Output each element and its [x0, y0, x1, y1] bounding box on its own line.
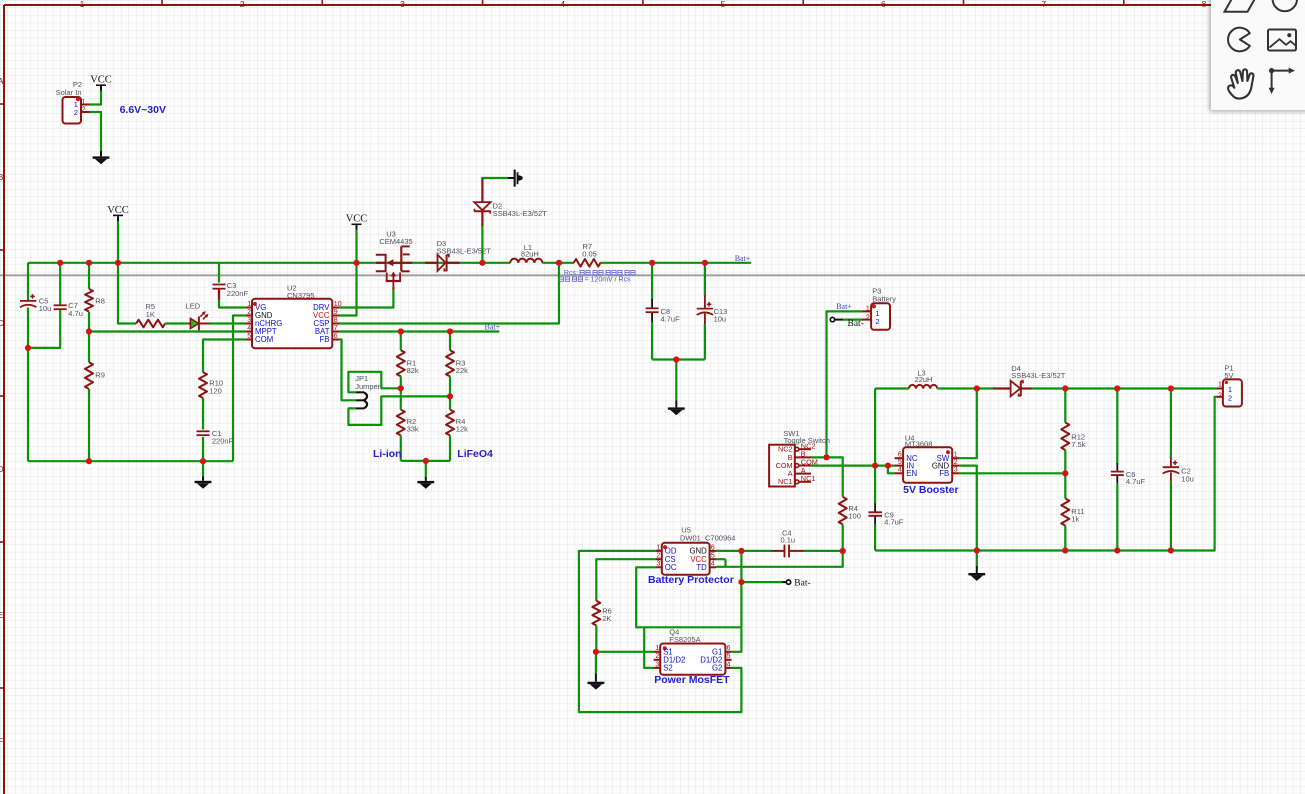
svg-text:G2: G2: [712, 664, 722, 673]
svg-text:1: 1: [656, 544, 660, 551]
svg-text:5: 5: [721, 0, 726, 9]
svg-text:1: 1: [82, 99, 86, 106]
diode D2 SSB43L-E3/52T: [474, 178, 547, 226]
svg-text:F: F: [0, 736, 3, 746]
capacitor C3 220nF: [218, 263, 220, 283]
svg-text:5: 5: [711, 553, 715, 560]
svg-text:S2: S2: [663, 664, 673, 673]
svg-text:CN3795: CN3795: [287, 291, 315, 300]
icon parallelogram: [1225, 0, 1258, 12]
jumper JP1: [355, 374, 381, 409]
IC U4 MT3608 (5V booster): [895, 433, 959, 482]
svg-text:Battery Protector: Battery Protector: [648, 574, 734, 586]
svg-text:Bat+: Bat+: [735, 254, 751, 263]
svg-text:8: 8: [1202, 0, 1207, 9]
resistor R10 120: [199, 372, 223, 398]
icon hand (pan): [1228, 69, 1253, 98]
ground (charger section): [202, 461, 204, 477]
svg-text:1: 1: [954, 451, 958, 458]
svg-text:1k: 1k: [1071, 515, 1079, 524]
svg-text:VCC: VCC: [107, 205, 129, 216]
inductor L1 82uH: [510, 243, 542, 263]
svg-text:6: 6: [727, 645, 731, 652]
svg-text:9: 9: [334, 309, 338, 316]
svg-text:22uH: 22uH: [915, 375, 933, 384]
svg-text:R8: R8: [95, 296, 105, 305]
svg-text:2: 2: [1218, 393, 1222, 400]
svg-text:4.7uF: 4.7uF: [661, 315, 681, 324]
svg-text:2: 2: [247, 309, 251, 316]
wire divider bottom: [401, 460, 450, 462]
svg-text:2K: 2K: [602, 614, 611, 623]
svg-text:0.05: 0.05: [582, 250, 597, 259]
svg-text:82k: 82k: [407, 366, 419, 375]
wire D2 to power flag: [481, 177, 508, 179]
wire S2 up: [644, 627, 653, 668]
svg-text:3: 3: [656, 561, 660, 568]
power flag VCC (top): [90, 75, 112, 91]
svg-text:LED: LED: [186, 302, 201, 311]
wire MPPT pin: [89, 330, 245, 332]
resistor R11 1k: [1061, 499, 1084, 526]
horizontal gray divider line: [0, 274, 1305, 276]
svg-text:COM: COM: [255, 335, 273, 344]
wire JP1 pin3 to R3/R4 node: [348, 396, 450, 425]
resistor R3 22k: [449, 332, 451, 351]
svg-text:B: B: [0, 172, 4, 182]
svg-text:2: 2: [82, 107, 86, 114]
icon arc (pacman): [1228, 28, 1250, 52]
resistor R4 12k: [446, 410, 468, 436]
connector P3 Battery: [861, 287, 896, 330]
svg-text:1: 1: [1218, 382, 1222, 389]
svg-text:100: 100: [848, 512, 861, 521]
svg-text:Rcs:: Rcs:: [564, 270, 578, 277]
svg-text:6: 6: [881, 0, 886, 9]
icon circle: [1273, 0, 1297, 11]
wire SW pin up to rail: [959, 389, 977, 459]
svg-text:4: 4: [711, 561, 715, 568]
svg-text:TD: TD: [696, 563, 707, 572]
svg-text:2: 2: [656, 553, 660, 560]
wire VCC pin from bus: [339, 230, 357, 316]
svg-text:4.7uF: 4.7uF: [1126, 477, 1146, 486]
svg-text:1: 1: [655, 645, 659, 652]
svg-text:1K: 1K: [146, 310, 155, 319]
wire OD loop to Q4 G2: [579, 551, 742, 712]
wire SW1 COM to booster node: [811, 465, 895, 467]
wire R8/R9 vertical: [88, 263, 90, 289]
wire booster bottom bus: [875, 397, 1216, 551]
wire VCC bus (main top horizontal): [28, 262, 510, 264]
wire COM pin to R10: [203, 340, 245, 373]
svg-text:FB: FB: [320, 335, 330, 344]
svg-text:22k: 22k: [456, 366, 468, 375]
ground (output caps): [668, 401, 685, 416]
svg-text:4.7u: 4.7u: [68, 309, 83, 318]
wire C7 branch: [59, 263, 61, 305]
svg-text:220nF: 220nF: [227, 289, 249, 298]
capacitor C7: [54, 301, 83, 318]
svg-text:33k: 33k: [407, 425, 419, 434]
inductor L3 22uH: [875, 387, 909, 389]
svg-text:5: 5: [727, 653, 731, 660]
svg-text:Bat-: Bat-: [848, 319, 864, 329]
wire GND pin down to bus: [959, 466, 977, 551]
op-amp/charger IC U2 CN3795: [245, 284, 341, 349]
svg-text:E: E: [0, 610, 4, 620]
svg-text:4: 4: [560, 0, 565, 9]
capacitor C9 4.7uF: [868, 504, 903, 527]
resistor R4 100: [839, 497, 861, 525]
switch SW1 Toggle Switch: [769, 429, 830, 486]
icon origin axes: [1269, 68, 1295, 94]
svg-text:12k: 12k: [456, 425, 468, 434]
svg-text:10u: 10u: [1181, 474, 1194, 483]
svg-text:4: 4: [898, 467, 902, 474]
svg-text:Battery: Battery: [872, 295, 896, 304]
svg-text:SSB43L-E3/52T: SSB43L-E3/52T: [1011, 371, 1066, 380]
svg-text:Bat+: Bat+: [836, 302, 852, 311]
capacitor C13 10u: [704, 263, 706, 296]
svg-text:2: 2: [866, 314, 870, 321]
wire D2 branch vertical: [481, 225, 483, 262]
svg-text:10u: 10u: [39, 304, 52, 313]
wire U2 GND pin to bottom bus: [233, 316, 245, 462]
svg-text:1: 1: [866, 306, 870, 313]
svg-text:4: 4: [247, 325, 251, 332]
capacitor C4 0.1u: [803, 550, 843, 552]
svg-text:FB: FB: [939, 469, 949, 478]
svg-text:3: 3: [400, 0, 405, 9]
svg-text:EN: EN: [906, 469, 917, 478]
svg-text:A: A: [0, 76, 4, 86]
svg-text:5V Booster: 5V Booster: [903, 484, 958, 496]
svg-text:6: 6: [711, 544, 715, 551]
wire L3 left vertical: [874, 389, 876, 466]
capacitor C1 220nF: [197, 429, 234, 446]
resistor R9: [85, 362, 105, 389]
wire P3 pin1 (Bat+) down to SW1: [827, 311, 862, 457]
resistor R2 33k: [397, 410, 419, 436]
svg-text:2: 2: [655, 653, 659, 660]
resistor R5 1K: [136, 302, 165, 327]
wire P2 pin2 to ground: [90, 112, 102, 152]
annotation Korean note line2: [559, 277, 631, 284]
svg-text:D: D: [0, 464, 4, 474]
svg-text:1: 1: [247, 301, 251, 308]
svg-text:Li-ion: Li-ion: [373, 448, 402, 460]
svg-text:OC: OC: [665, 563, 677, 572]
svg-text:2: 2: [954, 459, 958, 466]
svg-text:LiFeO4: LiFeO4: [457, 448, 493, 460]
wire FB pin to R12/R11: [959, 472, 1065, 474]
svg-text:220nF: 220nF: [212, 437, 234, 446]
ground (protector): [595, 652, 597, 674]
svg-text:MT3608: MT3608: [905, 439, 933, 448]
svg-text:7: 7: [334, 325, 338, 332]
svg-text:Bat+: Bat+: [484, 322, 500, 331]
svg-text:82uH: 82uH: [521, 250, 539, 259]
svg-text:2: 2: [1228, 393, 1232, 402]
wire CSP pin to R7 left: [339, 263, 559, 324]
svg-text:4: 4: [727, 661, 731, 668]
wire EN branch: [888, 466, 895, 474]
transistor Q4 FS8205A (dual MOSFET): [654, 627, 732, 674]
svg-text:VCC: VCC: [90, 75, 112, 86]
svg-text:3: 3: [247, 317, 251, 324]
svg-text:C: C: [0, 318, 4, 328]
resistor R8: [85, 289, 105, 312]
svg-text:Solar In: Solar In: [56, 88, 82, 97]
wire left vertical (C5 branch): [27, 263, 29, 300]
wire U5 GND pin to C4: [716, 550, 771, 552]
svg-text:10u: 10u: [714, 315, 727, 324]
svg-text:5V: 5V: [1224, 371, 1233, 380]
svg-text:8: 8: [334, 317, 338, 324]
wire S1 to ground node: [596, 651, 654, 653]
wire JP1 pin1 to R1/R2 node: [348, 372, 400, 393]
capacitor C6 4.7uF: [1116, 389, 1118, 464]
svg-text:2: 2: [240, 0, 245, 9]
wire 5V rail: [1032, 387, 1216, 389]
wire DRV pin to U3 gate: [339, 289, 393, 308]
svg-text:7.5k: 7.5k: [1071, 440, 1085, 449]
svg-text:R9: R9: [95, 371, 105, 380]
wire bottom ground bus (left): [28, 460, 233, 462]
svg-text:3: 3: [655, 661, 659, 668]
connector P2 Solar In: [56, 80, 90, 124]
svg-text:7: 7: [1041, 0, 1046, 9]
wire P3 pin2 to Bat- port: [843, 319, 861, 321]
ground (P2): [93, 151, 110, 164]
wire FB pin to jumper: [339, 340, 356, 401]
wire VCC/TD jog: [716, 551, 843, 567]
wire C3 to VG pin: [219, 291, 245, 308]
svg-text:5: 5: [247, 333, 251, 340]
connector P1 5V: [1216, 363, 1242, 406]
svg-text:6.6V~30V: 6.6V~30V: [120, 104, 166, 116]
annotation Korean note line1: [564, 270, 635, 277]
diode D3 SSB43L-E3/52T: [425, 239, 491, 271]
LED: [186, 302, 210, 331]
svg-text:= 120mV / Rcs: = 120mV / Rcs: [585, 277, 632, 284]
power flag VCC (second): [107, 205, 129, 221]
wire OC to G1: [636, 567, 741, 627]
IC U5 DW01 (battery protector): [655, 526, 735, 575]
svg-text:6: 6: [898, 451, 902, 458]
svg-text:SSB43L-E3/52T: SSB43L-E3/52T: [493, 209, 548, 218]
diode D4 SSB43L-E3/52T: [977, 387, 994, 389]
svg-text:2: 2: [74, 108, 78, 117]
svg-text:DW01_C700964: DW01_C700964: [680, 533, 735, 542]
wire LED to nCHRG: [210, 322, 245, 324]
svg-text:4.7uF: 4.7uF: [884, 518, 904, 527]
svg-text:VCC: VCC: [346, 214, 368, 225]
wire G1 stub link: [732, 627, 742, 652]
resistor R7 0.05: [574, 242, 601, 266]
svg-text:FS8205A: FS8205A: [669, 635, 700, 644]
resistor R12 7.5k: [1064, 389, 1066, 423]
power flag (black, D2 top): [508, 170, 523, 187]
capacitor C8 4.7uF: [651, 263, 653, 300]
resistor R6 2K: [592, 601, 611, 626]
svg-text:Power MosFET: Power MosFET: [654, 674, 730, 686]
svg-text:6: 6: [334, 333, 338, 340]
wire SW1 B to R4: [811, 457, 843, 496]
ground (divider): [417, 477, 434, 489]
svg-text:Jumper: Jumper: [355, 382, 381, 391]
ground (booster): [976, 551, 978, 567]
svg-text:0.1u: 0.1u: [780, 536, 795, 545]
transistor U3 CEM4435 (P-MOSFET): [376, 230, 413, 290]
svg-text:2: 2: [875, 317, 879, 326]
svg-text:1: 1: [80, 0, 85, 9]
svg-text:5: 5: [898, 459, 902, 466]
svg-text:120: 120: [209, 386, 222, 395]
svg-text:3: 3: [954, 467, 958, 474]
wire Bat- branch: [740, 551, 742, 627]
power flag VCC (third): [346, 214, 368, 230]
icon image: [1268, 30, 1296, 51]
toolbar panel (top right): [1211, 0, 1305, 110]
wire VCC2 drop to R5: [118, 221, 136, 324]
capacitor C5: [20, 294, 51, 313]
wire C8/C13 bottom: [652, 358, 705, 360]
wire CS to R6: [596, 559, 655, 601]
svg-text:NC1: NC1: [778, 477, 793, 486]
svg-text:CEM4435: CEM4435: [379, 237, 412, 246]
wire BAT pin (Bat+ net): [339, 330, 499, 332]
wire P2 pin1 to VCC: [90, 91, 102, 105]
wire R5 to LED: [165, 322, 188, 324]
svg-text:Bat-: Bat-: [794, 578, 810, 588]
resistor R1 82k: [400, 332, 402, 351]
capacitor C2 10u: [1170, 389, 1172, 459]
net port Bat- (protector): [782, 580, 791, 584]
